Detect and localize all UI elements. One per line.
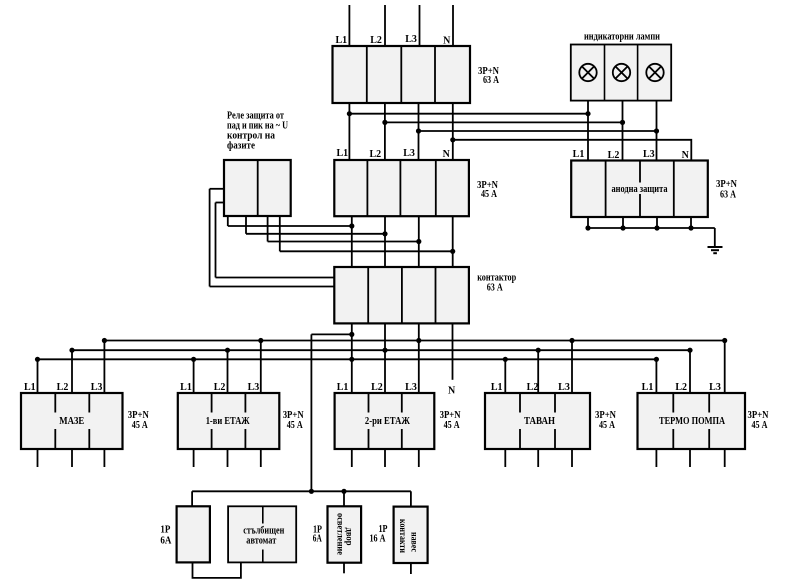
svg-text:45 А: 45 А: [132, 420, 149, 431]
45A breaker divider 3: [435, 160, 437, 216]
wire output 1 of TERMO POMPA: [655, 449, 657, 467]
wire subpanel distribution line: [192, 490, 411, 492]
wire subpanel feed down: [310, 334, 312, 491]
breaker yard lighting body: [328, 506, 362, 562]
wire output 3 of 2-ri ETAZh: [418, 449, 420, 467]
svg-text:1P: 1P: [160, 525, 170, 536]
wire N contactor output stub: [452, 323, 454, 379]
wire anode bottom earth bus: [588, 227, 715, 229]
wire N 45A breaker to contactor: [452, 216, 454, 267]
wire output 3 of 1-vi ETAZh: [260, 449, 262, 467]
junction relay sense on L1: [349, 223, 354, 228]
junction earth bus 2: [620, 225, 625, 230]
svg-text:N: N: [443, 36, 451, 47]
bus L1 (bottom): [38, 358, 657, 360]
junction on bus L3: [569, 338, 574, 343]
breaker MAZE divider 1: [54, 393, 56, 413]
anode protection divider 1: [605, 161, 607, 218]
svg-text:L1: L1: [642, 382, 654, 393]
wire shed sockets output stub: [410, 563, 412, 574]
wire staircase breaker to automat: [193, 562, 241, 578]
wire L3 drop to TERMO breaker: [724, 341, 726, 394]
staircase automat divider: [262, 506, 264, 523]
svg-text:L2: L2: [608, 150, 620, 161]
wire lamp1 / anode L1: [587, 101, 589, 161]
wire L2 feeder into main breaker: [384, 5, 386, 46]
svg-text:осветление: осветление: [335, 513, 345, 555]
breaker 2-ri ETAZh divider 1: [368, 393, 370, 413]
svg-text:L2: L2: [214, 382, 226, 393]
svg-text:45 А: 45 А: [481, 189, 498, 200]
lamps box divider 1: [604, 45, 606, 101]
svg-text:индикаторни лампи: индикаторни лампи: [584, 32, 660, 43]
breaker TERMO POMPA divider 1: [672, 393, 674, 413]
svg-text:МАЗЕ: МАЗЕ: [59, 416, 84, 427]
svg-text:L2: L2: [57, 382, 69, 393]
svg-text:фазите: фазите: [227, 140, 255, 151]
junction on bus L1: [654, 357, 659, 362]
wire output 3 of TERMO POMPA: [724, 449, 726, 467]
relay divider: [257, 160, 259, 216]
relay K1 body: [224, 160, 291, 216]
svg-text:L3: L3: [558, 382, 570, 393]
svg-text:2-ри ЕТАЖ: 2-ри ЕТАЖ: [365, 416, 410, 427]
wire output 2 of TERMO POMPA: [689, 449, 691, 467]
svg-text:L1: L1: [180, 382, 192, 393]
svg-text:двор: двор: [344, 528, 354, 546]
svg-text:контакти: контакти: [397, 519, 407, 553]
breaker 2-ri ETAZh divider 2: [401, 393, 403, 413]
wire output 2 of 1-vi ETAZh: [227, 449, 229, 467]
wire jog L1 to subpanel feed: [311, 333, 351, 335]
junction on bus L2: [536, 348, 541, 353]
svg-text:16 А: 16 А: [370, 534, 387, 545]
breaker 2-ri ETAZh body: [335, 393, 435, 449]
contactor KM1 body: [334, 267, 469, 323]
breaker TERMO POMPA body: [638, 393, 746, 449]
wire output 2 of MAZE: [71, 449, 73, 467]
junction earth bus 3: [654, 225, 659, 230]
breaker MAZE name text: [57, 415, 86, 426]
wire relay coil outer to contactor: [210, 286, 335, 288]
junction on bus L2: [382, 348, 387, 353]
svg-text:63 А: 63 А: [487, 283, 504, 294]
wire L2 branch to indicator lamps: [385, 121, 623, 123]
svg-text:45 А: 45 А: [287, 420, 304, 431]
wire L2 from main breaker to 45A breaker: [384, 103, 386, 160]
wire anode output 3: [656, 217, 658, 228]
svg-text:L3: L3: [248, 382, 260, 393]
breaker 1P 6A body: [177, 506, 210, 562]
svg-text:L1: L1: [337, 382, 349, 393]
wire L1 feeder into main breaker: [348, 5, 350, 46]
wire L3 45A breaker to contactor: [418, 216, 420, 267]
junction on bus L3: [258, 338, 263, 343]
svg-text:L2: L2: [527, 382, 539, 393]
wire output 1 of MAZE: [37, 449, 39, 467]
breaker 1-vi ETAZh divider 1: [211, 393, 213, 413]
wire L3 drop to 1st floor breaker: [260, 341, 262, 394]
svg-text:L1: L1: [335, 35, 347, 46]
wire L1 45A breaker to contactor: [351, 216, 353, 267]
wire L3 drop to MAZE breaker: [103, 341, 105, 394]
bus L3 (top): [104, 340, 724, 342]
wire relay coil left inner down: [215, 203, 217, 278]
breaker TAVAN divider 2: [554, 393, 556, 413]
wire relay sense output 1: [227, 216, 229, 226]
contactor divider 3: [435, 267, 437, 323]
svg-text:N: N: [443, 149, 451, 160]
breaker TERMO POMPA name text: [657, 415, 727, 426]
wire relay sense output 4: [279, 216, 281, 251]
staircase automat body: [228, 506, 296, 562]
svg-text:45 А: 45 А: [752, 420, 769, 431]
junction on bus L3: [722, 338, 727, 343]
contactor divider 1: [367, 267, 369, 323]
wire relay sense output 3: [267, 216, 269, 242]
junction on bus L2: [687, 348, 692, 353]
wire L3 branch to indicator lamps: [419, 130, 657, 132]
svg-text:6А: 6А: [313, 534, 323, 545]
wire yard lighting output stub: [343, 563, 345, 574]
wire relay sense line 1 to L1: [228, 225, 352, 227]
wire output 3 of MAZE: [103, 449, 105, 467]
wire L2 drop to TERMO breaker: [689, 350, 691, 393]
wire anode output 2: [622, 217, 624, 228]
breaker TERMO POMPA divider 2: [708, 393, 710, 413]
wire output 3 of TAVAN: [571, 449, 573, 467]
wire output 2 of 2-ri ETAZh: [384, 449, 386, 467]
anode protection divider 2: [639, 161, 641, 218]
breaker TAVAN name text: [522, 415, 557, 426]
indicator lamps box body: [571, 45, 671, 101]
junction on bus L2: [69, 348, 74, 353]
wire earth bus down to ground: [714, 228, 716, 247]
junction earth bus 1: [585, 225, 590, 230]
breaker TAVAN body: [485, 393, 590, 449]
main breaker pole divider 3: [434, 46, 436, 103]
staircase automat name text: [240, 525, 287, 547]
contactor divider 2: [401, 267, 403, 323]
junction L1 branch left: [347, 111, 352, 116]
wire L1 branch to indicator lamps: [349, 113, 588, 115]
main breaker 3P+N 63A body: [333, 46, 471, 103]
junction jog on L1: [349, 332, 354, 337]
wire N branch to anode protection: [453, 140, 692, 161]
junction on bus L1: [503, 357, 508, 362]
wire anode output N: [690, 217, 692, 228]
lamp HL1 symbol: [579, 64, 596, 81]
wire relay coil stub lower: [216, 202, 225, 204]
breaker shed sockets body: [394, 507, 428, 563]
wire L3 contactor output down: [418, 323, 420, 393]
svg-text:L2: L2: [369, 149, 381, 160]
wire output 1 of TAVAN: [504, 449, 506, 467]
main breaker pole divider 1: [366, 46, 368, 103]
wire output 2 of TAVAN: [537, 449, 539, 467]
breaker 1-vi ETAZh body: [178, 393, 279, 449]
wire relay coil left outer down: [209, 189, 211, 287]
wire L2 contactor output down: [384, 323, 386, 393]
svg-text:L1: L1: [573, 149, 585, 160]
svg-text:L1: L1: [336, 148, 348, 159]
svg-text:навес: навес: [409, 532, 419, 552]
svg-text:ТЕРМО ПОМПА: ТЕРМО ПОМПА: [659, 416, 726, 427]
breaker 2-ri ETAZh name text: [363, 415, 412, 426]
wire N feeder into main breaker: [452, 5, 454, 46]
wire relay sense line 4 to N: [280, 250, 453, 252]
junction relay sense on L3: [416, 239, 421, 244]
junction on bus L2: [225, 348, 230, 353]
breaker TAVAN divider 1: [519, 393, 521, 413]
junction on bus L3: [102, 338, 107, 343]
wire output 1 of 2-ri ETAZh: [351, 449, 353, 467]
svg-text:L1: L1: [24, 382, 36, 393]
wire lamp2 / anode L2: [622, 101, 624, 161]
wire L1 drop to 1st floor breaker: [193, 359, 195, 393]
bus L2 (middle): [72, 349, 690, 351]
45A breaker divider 1: [366, 160, 368, 216]
junction on bus L3: [416, 338, 421, 343]
ground symbol: [708, 246, 723, 248]
svg-text:L3: L3: [91, 382, 103, 393]
junction on bus L1: [191, 357, 196, 362]
breaker 1-vi ETAZh name text: [204, 415, 252, 426]
wire L1 drop to TERMO breaker: [655, 359, 657, 393]
junction L3 branch right at lamp 3: [654, 128, 659, 133]
wire L2 drop to TAVAN breaker: [537, 350, 539, 393]
wire L2 45A breaker to contactor: [384, 216, 386, 267]
svg-text:L3: L3: [405, 382, 417, 393]
lamp HL3 symbol: [646, 64, 663, 81]
breaker MAZE body: [21, 393, 123, 449]
svg-text:L3: L3: [709, 382, 721, 393]
wire L1 from main breaker to 45A breaker: [348, 103, 350, 160]
wire L1 contactor output down to 2nd floor breaker: [351, 323, 353, 393]
wire relay coil stub upper: [210, 188, 224, 190]
svg-text:L3: L3: [403, 148, 415, 159]
wire L1 drop to MAZE breaker: [37, 359, 39, 393]
svg-text:45 А: 45 А: [444, 420, 461, 431]
wire relay sense output 2: [245, 216, 247, 234]
breaker MAZE divider 2: [88, 393, 90, 413]
wire relay coil inner to contactor: [216, 277, 335, 279]
svg-text:L1: L1: [491, 382, 503, 393]
svg-text:L2: L2: [371, 382, 383, 393]
wire lamp3 / anode L3: [656, 101, 658, 161]
wire L2 drop to 1st floor breaker: [227, 350, 229, 393]
svg-text:3P+N: 3P+N: [716, 179, 738, 190]
svg-text:63 А: 63 А: [720, 190, 737, 201]
45A breaker divider 2: [399, 160, 401, 216]
junction L2 branch right at lamp 2: [620, 120, 625, 125]
anode protection breaker body: [571, 161, 708, 218]
lamp HL2 symbol: [613, 64, 630, 81]
svg-text:L3: L3: [643, 149, 655, 160]
breaker 1-vi ETAZh divider 2: [244, 393, 246, 413]
svg-text:1-ви ЕТАЖ: 1-ви ЕТАЖ: [206, 416, 250, 427]
main breaker pole divider 2: [400, 46, 402, 103]
svg-text:45 А: 45 А: [599, 420, 616, 431]
svg-text:63 А: 63 А: [483, 75, 500, 86]
junction on bus L1: [349, 357, 354, 362]
anode protection name text: [608, 183, 671, 195]
junction N branch left: [450, 137, 455, 142]
anode protection divider 3: [673, 161, 675, 218]
junction subpanel lamp drop: [341, 489, 346, 494]
svg-text:N: N: [682, 150, 690, 161]
wire drop to 1P 6A breaker: [191, 491, 193, 506]
svg-text:L3: L3: [405, 34, 417, 45]
wire L3 feeder into main breaker: [419, 5, 421, 46]
svg-text:L2: L2: [370, 35, 382, 46]
junction relay sense on L2: [382, 231, 387, 236]
wire anode output 1: [587, 217, 589, 228]
wire L3 drop to TAVAN breaker: [571, 341, 573, 394]
junction L3 branch left: [416, 128, 421, 133]
junction L1 branch right at lamp 1: [585, 111, 590, 116]
lamps box divider 2: [637, 45, 639, 101]
svg-text:N: N: [448, 386, 456, 397]
wire drop to shed sockets breaker: [410, 491, 412, 506]
svg-text:анодна защита: анодна защита: [612, 184, 668, 195]
wire N from main breaker to 45A breaker: [452, 103, 454, 160]
junction relay sense on N: [450, 249, 455, 254]
junction L2 branch left: [382, 120, 387, 125]
wire L1 drop to TAVAN breaker: [504, 359, 506, 393]
svg-text:ТАВАН: ТАВАН: [524, 416, 555, 427]
45A breaker body: [334, 160, 469, 216]
junction on bus L1: [35, 357, 40, 362]
svg-text:L2: L2: [675, 382, 687, 393]
wire output 1 of 1-vi ETAZh: [193, 449, 195, 467]
svg-text:6А: 6А: [160, 536, 172, 547]
wire relay sense line 3 to L3: [268, 241, 419, 243]
junction earth bus 4: [688, 225, 693, 230]
wire L3 from main breaker to 45A breaker: [418, 103, 420, 160]
wire relay sense line 2 to L2: [246, 233, 385, 235]
wire L2 drop to MAZE breaker: [71, 350, 73, 393]
wire drop to yard lighting breaker: [343, 491, 345, 506]
svg-text:автомат: автомат: [246, 536, 276, 547]
junction subpanel feed: [309, 489, 314, 494]
